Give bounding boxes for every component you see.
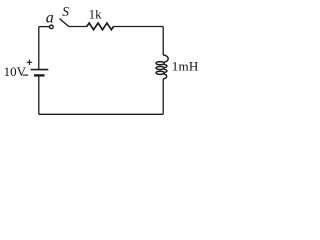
inductor loop 2	[156, 66, 164, 69]
inductor connector 1-2	[164, 65, 167, 68]
inductor L coil: top connector	[163, 55, 168, 62]
svg-text:1mH: 1mH	[172, 58, 199, 73]
wire: bottom-left corner up to battery negative plate	[38, 76, 40, 114]
inductor bottom connector	[163, 74, 166, 80]
svg-text:a: a	[46, 10, 54, 27]
inductor loop 1	[156, 62, 164, 65]
label: battery minus sign	[23, 74, 29, 76]
wire: resistor to top-right corner	[113, 26, 163, 28]
wire: switch to resistor R	[68, 26, 87, 28]
inductor loop 3	[156, 71, 164, 74]
resistor 1k zigzag	[87, 23, 114, 30]
svg-text:S: S	[62, 4, 69, 19]
wire: right side, top-right corner down to inductor	[162, 27, 164, 56]
wire: top-left corner to node a terminal	[39, 26, 50, 28]
battery negative plate (short thick)	[34, 74, 45, 76]
label: battery plus sign	[27, 60, 33, 65]
inductor connector 2-3	[164, 69, 167, 72]
node a terminal (open circle)	[50, 25, 54, 29]
switch S blade	[60, 19, 69, 27]
wire: bottom	[39, 113, 163, 115]
svg-text:10V: 10V	[4, 64, 27, 79]
wire: inductor to bottom-right corner	[162, 80, 164, 115]
battery positive plate (long thin)	[31, 69, 49, 71]
wire: battery positive plate up to top-left corner	[38, 27, 40, 70]
svg-text:1k: 1k	[89, 6, 103, 21]
